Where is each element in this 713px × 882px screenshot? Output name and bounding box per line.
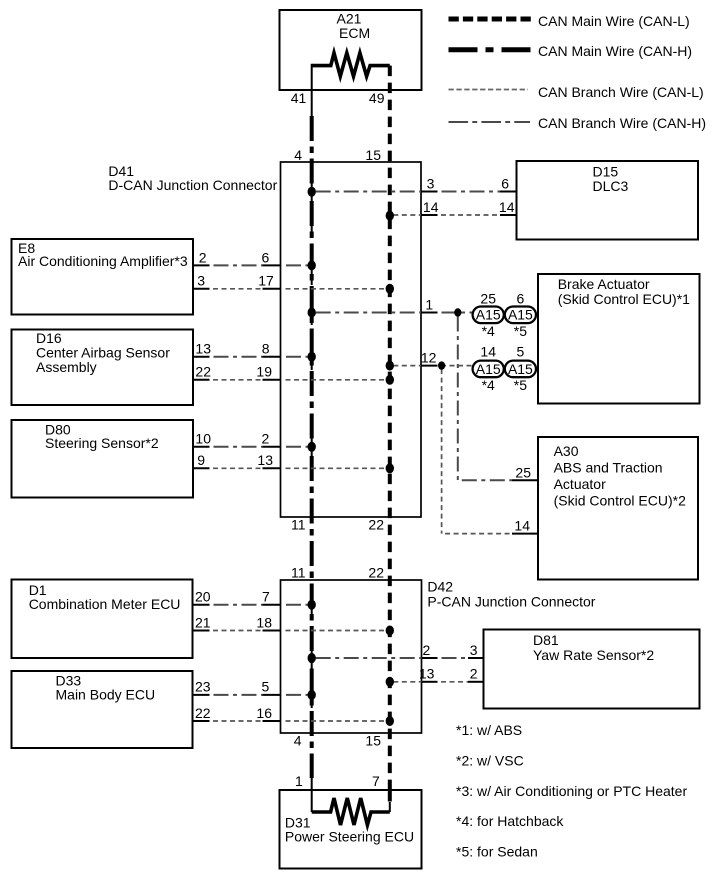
svg-text:Power Steering ECU: Power Steering ECU <box>285 828 414 844</box>
svg-text:2: 2 <box>199 249 207 265</box>
wire D81 CAN-H branch (pins 2 to 3) <box>312 657 484 659</box>
svg-text:*4: *4 <box>482 377 495 393</box>
wire D80 CAN-H branch (pins 10 to 2) <box>193 446 312 448</box>
svg-text:CAN Main Wire (CAN-L): CAN Main Wire (CAN-L) <box>538 13 690 29</box>
junction dot D15 CAN-H <box>308 187 316 197</box>
svg-text:*4: for Hatchback: *4: for Hatchback <box>456 813 564 829</box>
svg-text:17: 17 <box>258 273 274 289</box>
wire CAN-H main vertical (CAN Main Wire CAN-H) <box>310 64 314 812</box>
svg-text:22: 22 <box>368 517 384 533</box>
ECU box D31 Power Steering <box>280 790 422 869</box>
legend CAN Branch Wire (CAN-H) <box>449 115 707 131</box>
svg-text:19: 19 <box>256 364 272 380</box>
svg-text:CAN Main Wire (CAN-H): CAN Main Wire (CAN-H) <box>538 43 692 59</box>
svg-text:A15: A15 <box>476 361 501 377</box>
svg-text:A15: A15 <box>508 307 533 323</box>
junction dot A30 CAN-L tap <box>438 361 445 369</box>
wire D1 CAN-H branch (pins 20 to 7) <box>193 604 312 606</box>
wire D33 CAN-H branch (pins 23 to 5) <box>193 694 312 696</box>
junction dot D33 CAN-L <box>386 716 394 726</box>
svg-text:9: 9 <box>197 452 205 468</box>
junction dot D81 CAN-L <box>386 677 394 687</box>
svg-text:11: 11 <box>291 517 306 533</box>
svg-text:14: 14 <box>423 199 439 215</box>
junction dot E8 CAN-L <box>386 284 394 294</box>
svg-text:Actuator: Actuator <box>554 476 606 492</box>
svg-text:4: 4 <box>294 732 302 748</box>
svg-text:10: 10 <box>195 431 211 447</box>
svg-text:23: 23 <box>195 679 211 695</box>
junction dot D1 CAN-L <box>386 626 394 636</box>
ECU box E8 Air Conditioning Amplifier <box>12 239 194 315</box>
svg-text:*1: w/ ABS: *1: w/ ABS <box>456 722 522 738</box>
svg-text:49: 49 <box>369 90 385 106</box>
svg-text:ABS and Traction: ABS and Traction <box>554 460 663 476</box>
svg-text:13: 13 <box>257 452 273 468</box>
svg-text:22: 22 <box>195 364 211 380</box>
svg-text:*5: *5 <box>514 323 527 339</box>
wire D15 CAN-H branch (pins 3 to 6) <box>312 191 517 193</box>
svg-text:13: 13 <box>195 341 211 357</box>
wire D33 CAN-L branch (pins 22 to 16) <box>193 720 390 722</box>
svg-text:4: 4 <box>294 147 302 163</box>
junction dot brake CAN-L <box>386 361 394 371</box>
svg-text:Main Body ECU: Main Body ECU <box>56 687 156 703</box>
ECM box A21 <box>280 10 422 90</box>
junction connector D41 box <box>108 162 421 517</box>
svg-text:11: 11 <box>291 564 306 580</box>
resistor inside ECM (terminating resistor) <box>312 53 390 76</box>
svg-text:ECM: ECM <box>339 25 370 41</box>
svg-text:*4: *4 <box>482 323 495 339</box>
legend CAN Main Wire (CAN-H) <box>449 43 693 59</box>
svg-text:A15: A15 <box>508 361 533 377</box>
svg-text:15: 15 <box>365 732 381 748</box>
svg-text:7: 7 <box>372 773 380 789</box>
svg-text:6: 6 <box>262 249 270 265</box>
ECU box A30 ABS and Traction Actuator <box>538 437 698 580</box>
svg-text:*2: w/ VSC: *2: w/ VSC <box>456 752 524 768</box>
wire E8 CAN-H branch (pins 2 to 6) <box>193 264 312 266</box>
junction connector D42 box <box>281 578 596 733</box>
svg-text:D81: D81 <box>533 632 559 648</box>
svg-text:25: 25 <box>515 464 531 480</box>
svg-text:13: 13 <box>419 666 435 682</box>
svg-text:2: 2 <box>470 666 478 682</box>
connector oval A15 *5 row1 <box>505 291 536 339</box>
svg-text:A21: A21 <box>337 10 362 26</box>
connector oval A15 *5 row2 <box>505 344 536 393</box>
wire D16 CAN-L branch (pins 22 to 19) <box>193 379 390 381</box>
wire Brake Actuator CAN-H branch (pin 1) <box>312 312 473 314</box>
connector oval A15 *4 row2 <box>473 344 504 393</box>
svg-text:6: 6 <box>517 291 525 307</box>
junction dot D1 CAN-H <box>308 600 316 610</box>
svg-text:12: 12 <box>421 349 437 365</box>
svg-text:Yaw Rate Sensor*2: Yaw Rate Sensor*2 <box>533 647 654 663</box>
ECU box D16 Center Airbag Sensor <box>12 330 194 406</box>
junction dot D33 CAN-H <box>308 690 316 700</box>
svg-text:(Skid Control ECU)*1: (Skid Control ECU)*1 <box>558 291 690 307</box>
ECU box D33 Main Body <box>12 671 193 748</box>
svg-text:15: 15 <box>365 147 381 163</box>
ECU box D81 Yaw Rate Sensor <box>484 630 700 709</box>
wire D81 CAN-L branch (pins 13 to 2) <box>390 681 484 683</box>
svg-text:8: 8 <box>262 341 270 357</box>
svg-text:A15: A15 <box>476 307 501 323</box>
ECU box D1 Combination Meter <box>12 580 193 659</box>
svg-text:41: 41 <box>291 90 307 106</box>
junction dot E8 CAN-H <box>308 260 316 270</box>
resistor inside D31 (terminating resistor) <box>312 798 390 825</box>
svg-text:CAN Branch Wire (CAN-H): CAN Branch Wire (CAN-H) <box>538 115 706 131</box>
svg-text:3: 3 <box>197 273 205 289</box>
junction dot D81 CAN-H <box>308 653 316 663</box>
wire CAN-L main vertical (CAN Main Wire CAN-L) <box>388 66 392 812</box>
svg-text:*5: *5 <box>514 377 527 393</box>
svg-text:3: 3 <box>470 642 478 658</box>
svg-text:22: 22 <box>195 705 211 721</box>
wire CAN-L leg inside D31 <box>388 791 392 812</box>
wire CAN-H leg inside D31 <box>311 789 313 812</box>
svg-text:D42: D42 <box>427 578 453 594</box>
ECU box D15 DLC3 <box>517 161 699 240</box>
svg-text:CAN Branch Wire (CAN-L): CAN Branch Wire (CAN-L) <box>538 84 704 100</box>
svg-text:5: 5 <box>517 344 525 360</box>
svg-text:Brake Actuator: Brake Actuator <box>558 276 650 292</box>
junction dot D16 CAN-L <box>386 375 394 385</box>
svg-text:Combination Meter ECU: Combination Meter ECU <box>29 596 181 612</box>
svg-text:Assembly: Assembly <box>36 359 97 375</box>
svg-text:5: 5 <box>262 679 270 695</box>
svg-text:16: 16 <box>256 705 272 721</box>
ECU box D80 Steering Sensor <box>12 420 194 498</box>
svg-text:2: 2 <box>423 642 431 658</box>
svg-text:P-CAN Junction Connector: P-CAN Junction Connector <box>427 594 595 610</box>
svg-text:D-CAN Junction Connector: D-CAN Junction Connector <box>108 177 277 193</box>
junction dot D80 CAN-H <box>308 442 316 452</box>
svg-text:Steering Sensor*2: Steering Sensor*2 <box>45 435 159 451</box>
ECU box Brake Actuator (Skid Control ECU) <box>538 274 700 404</box>
junction dot D15 CAN-L <box>386 211 394 221</box>
legend CAN Branch Wire (CAN-L) <box>449 84 704 100</box>
svg-text:14: 14 <box>480 344 496 360</box>
svg-text:1: 1 <box>425 296 433 312</box>
junction dot D80 CAN-L <box>386 463 394 473</box>
svg-text:22: 22 <box>368 564 384 580</box>
svg-text:25: 25 <box>480 291 496 307</box>
wire D15 CAN-L branch (pins 14 to 14) <box>390 214 517 216</box>
svg-text:2: 2 <box>262 431 270 447</box>
junction dot A30 CAN-H tap <box>454 308 461 316</box>
svg-text:14: 14 <box>499 199 515 215</box>
svg-text:A30: A30 <box>554 443 579 459</box>
wire CAN-L drop to A30 pin 14 <box>442 366 538 534</box>
svg-text:1: 1 <box>295 773 303 789</box>
wire CAN-H drop to A30 pin 25 <box>458 313 538 481</box>
wire D1 CAN-L branch (pins 21 to 18) <box>193 630 390 632</box>
svg-text:20: 20 <box>195 589 211 605</box>
junction dot D16 CAN-H <box>308 352 316 362</box>
svg-text:18: 18 <box>256 614 272 630</box>
wire Brake Actuator CAN-L branch (pin 12) <box>390 365 473 367</box>
svg-text:*5: for Sedan: *5: for Sedan <box>456 843 538 859</box>
svg-text:7: 7 <box>262 589 270 605</box>
svg-text:(Skid Control ECU)*2: (Skid Control ECU)*2 <box>554 493 686 509</box>
svg-text:Air Conditioning Amplifier*3: Air Conditioning Amplifier*3 <box>18 253 188 269</box>
wire E8 CAN-L branch (pins 3 to 17) <box>193 288 390 290</box>
svg-text:*3: w/ Air Conditioning or PTC: *3: w/ Air Conditioning or PTC Heater <box>456 783 687 799</box>
svg-text:6: 6 <box>501 175 509 191</box>
wire D16 CAN-H branch (pins 13 to 8) <box>193 356 312 358</box>
svg-text:21: 21 <box>195 614 211 630</box>
wire D80 CAN-L branch (pins 9 to 13) <box>193 467 390 469</box>
junction dot brake CAN-H <box>308 308 316 318</box>
svg-text:3: 3 <box>427 175 435 191</box>
connector oval A15 *4 row1 <box>473 291 504 339</box>
legend CAN Main Wire (CAN-L) <box>449 13 690 29</box>
svg-text:DLC3: DLC3 <box>593 178 629 194</box>
svg-text:14: 14 <box>514 518 530 534</box>
